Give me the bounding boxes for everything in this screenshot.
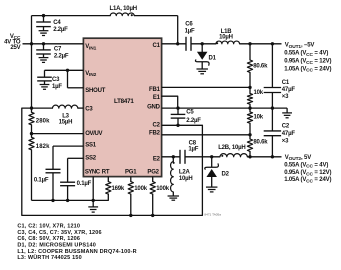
- node C2 cap bottom junction: [271, 155, 274, 158]
- inductor L1B: [216, 41, 240, 44]
- svg-text:D1, D2: MICROSEMI UPS140: D1, D2: MICROSEMI UPS140: [17, 243, 96, 249]
- wire L2B to VOUT2: [247, 156, 281, 158]
- resistor R 10k lower: [249, 108, 251, 112]
- svg-text:0.1µF: 0.1µF: [34, 177, 49, 183]
- wire C8 to L2B: [185, 156, 220, 158]
- wire L1B to VOUT1: [240, 43, 282, 45]
- svg-text:C7: C7: [54, 47, 62, 53]
- node top drop junction: [176, 42, 179, 45]
- svg-text:×3: ×3: [282, 138, 289, 144]
- svg-text:182k: 182k: [36, 144, 50, 150]
- resistor R 169k on RT: [107, 177, 109, 182]
- capacitor CSS1 0.1uF: [46, 168, 61, 170]
- svg-text:SHOUT: SHOUT: [85, 88, 106, 94]
- svg-text:0.1µF: 0.1µF: [77, 181, 92, 187]
- wire FB2: [162, 134, 250, 136]
- svg-text:OV/UV: OV/UV: [85, 131, 102, 137]
- svg-text:1µF: 1µF: [185, 29, 195, 35]
- svg-text:C5: C5: [186, 109, 194, 115]
- node D1 junction: [201, 42, 204, 45]
- wire C1 pin to C6: [162, 43, 186, 45]
- svg-text:15µH: 15µH: [59, 120, 73, 126]
- svg-text:2.2µF: 2.2µF: [54, 53, 69, 59]
- capacitor C2 47uF x3: [271, 108, 273, 131]
- node FB1 junction: [248, 86, 251, 89]
- node L2A junction: [172, 155, 175, 158]
- svg-text:10µH: 10µH: [219, 35, 233, 41]
- svg-text:L2A: L2A: [179, 170, 191, 176]
- svg-text:D2: D2: [222, 172, 230, 178]
- capacitor C3: [44, 70, 46, 77]
- svg-text:47µF: 47µF: [282, 87, 296, 93]
- svg-text:SYNC: SYNC: [85, 170, 101, 176]
- svg-text:8471 TA05a: 8471 TA05a: [204, 212, 221, 216]
- inductor L1A: [110, 13, 134, 16]
- op-amp U1 LT8471 regulator body: [83, 38, 161, 176]
- wire VCC outer loop: [22, 108, 203, 215]
- node C4 junction: [42, 14, 45, 17]
- svg-text:C1: C1: [282, 80, 290, 86]
- node VCC rail junction: [30, 42, 33, 45]
- svg-text:PG2: PG2: [147, 170, 159, 176]
- wire SS2: [68, 157, 84, 159]
- wire top rail right segment: [134, 15, 178, 17]
- svg-text:C4: C4: [53, 20, 61, 26]
- node ladder mid junction: [248, 106, 251, 109]
- wire E1 jog: [162, 96, 178, 108]
- resistor R 80.6k bottom: [249, 135, 251, 139]
- capacitor C8: [179, 150, 181, 164]
- node D2 junction: [210, 155, 213, 158]
- resistor R 280k: [31, 108, 33, 112]
- svg-text:80.6k: 80.6k: [253, 140, 268, 146]
- svg-text:C2: C2: [282, 124, 290, 130]
- wire L3 to C3 pin: [78, 107, 84, 109]
- svg-text:C3: C3: [85, 106, 93, 112]
- svg-text:PG1: PG1: [125, 170, 137, 176]
- wire C6 to L1B: [191, 43, 216, 45]
- C3 ground: [40, 84, 50, 86]
- wire to L3: [32, 107, 53, 109]
- L2B phase dot: [221, 155, 223, 157]
- wire left rail vertical: [31, 16, 33, 109]
- capacitor CSS2 0.1uF: [60, 181, 75, 183]
- svg-text:FB2: FB2: [149, 131, 161, 137]
- svg-text:10µH: 10µH: [179, 176, 193, 182]
- svg-text:2.2µF: 2.2µF: [186, 118, 201, 124]
- resistor R 100k on PG1: [130, 177, 132, 182]
- svg-text:L1A, 10µH: L1A, 10µH: [110, 6, 137, 12]
- node ladder top junction: [248, 42, 251, 45]
- svg-text:C1, C2: 10V, X7R, 1210: C1, C2: 10V, X7R, 1210: [17, 224, 80, 230]
- svg-text:GND: GND: [147, 104, 161, 110]
- svg-text:C6, C8: 50V, X7R, 1206: C6, C8: 50V, X7R, 1206: [17, 236, 80, 242]
- svg-text:SS1: SS1: [85, 143, 97, 149]
- svg-text:C8: C8: [189, 141, 197, 147]
- wire SS1: [53, 145, 83, 147]
- L2A ground: [168, 195, 179, 197]
- D1 ground: [196, 68, 207, 70]
- wire VIN1 from VCC: [23, 43, 84, 45]
- capacitor C7: [43, 44, 45, 50]
- svg-text:169k: 169k: [112, 186, 125, 192]
- L1A phase dot: [131, 14, 133, 16]
- node SHOUT tie junction: [66, 69, 69, 72]
- wire E2 pin: [162, 156, 180, 158]
- svg-text:280k: 280k: [36, 118, 50, 124]
- L1B phase dot: [216, 42, 218, 44]
- capacitor C4: [43, 16, 45, 22]
- svg-text:80.6k: 80.6k: [253, 64, 268, 70]
- svg-text:C1: C1: [153, 43, 161, 49]
- svg-text:47µF: 47µF: [282, 131, 296, 137]
- svg-text:L1, L2: COOPER BUSSMANN DRQ74-: L1, L2: COOPER BUSSMANN DRQ74-100-R: [17, 249, 136, 255]
- svg-text:C3, C4, C5, C7: 35V, X7R, 1206: C3, C4, C5, C7: 35V, X7R, 1206: [17, 230, 101, 236]
- svg-text:C6: C6: [185, 22, 193, 28]
- node left rail to L3 junction: [30, 106, 33, 109]
- node E1/C5 junction: [176, 106, 179, 109]
- svg-text:SS2: SS2: [85, 156, 97, 162]
- node output caps mid junction: [271, 106, 274, 109]
- svg-text:×3: ×3: [282, 94, 289, 100]
- wire FB1: [162, 86, 250, 88]
- node C1 cap junction: [271, 42, 274, 45]
- node OV/UV junction: [30, 132, 33, 135]
- svg-text:C3: C3: [52, 77, 60, 83]
- diode D1: [201, 44, 203, 52]
- svg-text:C2: C2: [153, 123, 161, 129]
- svg-text:10k: 10k: [254, 115, 264, 121]
- svg-text:1µF: 1µF: [52, 84, 62, 90]
- inductor L2B: [220, 154, 247, 157]
- wire GND mid rail: [162, 107, 288, 109]
- capacitor C1 47uF x3: [271, 44, 273, 88]
- resistor R 80.6k top: [249, 44, 251, 60]
- inductor L3: [53, 105, 78, 108]
- node SYNC ground junction: [92, 199, 95, 202]
- wire top rail left segment: [32, 15, 111, 17]
- wire C2 pin: [162, 124, 203, 126]
- svg-text:FB1: FB1: [149, 87, 161, 93]
- svg-text:100k: 100k: [134, 186, 147, 192]
- wire OV/UV: [32, 133, 84, 135]
- svg-text:RT: RT: [102, 170, 110, 176]
- node FB2 junction: [248, 133, 251, 136]
- svg-text:100k: 100k: [156, 186, 169, 192]
- svg-text:D1: D1: [209, 55, 217, 61]
- node C7 junction: [42, 42, 45, 45]
- D2 ground: [206, 186, 217, 188]
- svg-text:E2: E2: [153, 156, 161, 162]
- svg-text:10k: 10k: [254, 90, 264, 96]
- inductor L2A: [172, 157, 174, 162]
- node CSS1 bottom junction: [51, 199, 54, 202]
- node CSS2 bottom junction: [66, 199, 69, 202]
- svg-text:L2B, 10µH: L2B, 10µH: [218, 145, 245, 151]
- wire VIN2: [45, 69, 84, 71]
- svg-text:L3: WÜRTH 744025 150: L3: WÜRTH 744025 150: [17, 254, 81, 261]
- capacitor C6: [185, 37, 187, 51]
- node PG2 pullup junction: [151, 214, 154, 217]
- resistor R 182k: [31, 134, 33, 138]
- node ladder bottom junction: [248, 155, 251, 158]
- wire drop from top rail to C1 pin: [177, 16, 179, 44]
- diode D2: [211, 157, 213, 168]
- C4 ground: [39, 30, 49, 32]
- L2A phase dot: [173, 162, 175, 164]
- svg-text:LT8471: LT8471: [114, 98, 134, 105]
- node C5 bottom junction: [176, 124, 179, 127]
- wire SHOUT jog: [67, 70, 69, 88]
- resistor R 100k on PG2: [152, 177, 154, 182]
- svg-text:1µF: 1µF: [188, 147, 198, 153]
- wire inner ground rail: [32, 199, 94, 201]
- wire SYNC to ground: [92, 177, 94, 207]
- svg-text:25V: 25V: [10, 45, 20, 51]
- C7 ground: [39, 57, 49, 59]
- svg-text:2.2µF: 2.2µF: [53, 27, 68, 33]
- node PG1 pullup junction: [129, 214, 132, 217]
- capacitor C5: [177, 108, 179, 114]
- ground at SYNC: [88, 206, 98, 208]
- svg-text:E1: E1: [153, 95, 161, 101]
- mid rail ground: [286, 108, 288, 113]
- resistor R 10k upper: [249, 87, 251, 93]
